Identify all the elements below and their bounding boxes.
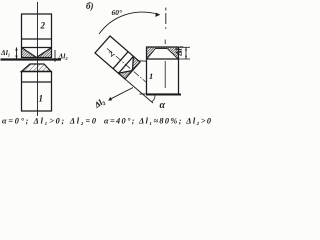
svg-text:60°: 60° (112, 8, 123, 17)
tilted assembly axis dash-dot (107, 48, 147, 82)
svg-text:α: α (160, 100, 166, 111)
tilted block 2 cone V wall a (132, 56, 135, 70)
recess base line (147, 58, 179, 60)
block 1 right body (147, 47, 179, 94)
dl1 dimension line (185, 47, 187, 59)
svg-text:α=0°; Δl₁>0; Δl₂=0: α=0°; Δl₁>0; Δl₂=0 (2, 117, 96, 126)
tilted block 2 outline (95, 36, 140, 79)
svg-text:б): б) (86, 1, 94, 11)
alpha angle bottom edge extension (140, 93, 147, 95)
block 1 right hatched band (147, 47, 179, 59)
svg-text:2: 2 (40, 21, 46, 31)
tilted block 2 cone V wall b (118, 71, 132, 74)
contact line cone neck upper (140, 60, 147, 62)
block 1 body (22, 72, 52, 112)
dl1 dimension extension bottom (179, 58, 191, 60)
tilted block 2 internal line upper (113, 52, 128, 69)
tilted block 2 internal line lower (118, 56, 133, 73)
block 2 cone V right wall (37, 48, 52, 58)
block 1 right bottom heavy edge (146, 94, 181, 96)
inserted cone dome white (147, 49, 178, 59)
block 2 internal line upper (22, 38, 52, 40)
arc arrowhead (155, 13, 160, 17)
alpha angle arc (152, 95, 155, 102)
tilted block 2 hatched section b (118, 71, 132, 80)
tilted block 2 hatched section a (133, 56, 141, 70)
block 2 body (22, 14, 52, 58)
block 1 dome base line (21, 71, 52, 73)
joint plane heavy line (1, 58, 62, 60)
svg-text:α=40°; Δl₁≈80%; Δl₂>0: α=40°; Δl₁≈80%; Δl₂>0 (104, 117, 211, 126)
block 1 cone dome (22, 64, 52, 72)
figure a centerline (37, 2, 39, 116)
dimension arrow dl2 right (54, 50, 56, 62)
60 degree arc (99, 12, 158, 34)
block 2 hatched section right (37, 48, 52, 58)
svg-text:Δl₂: Δl₂ (58, 52, 69, 61)
block 2 internal line lower (22, 47, 52, 49)
dimension arrow dl1 left (16, 48, 18, 59)
svg-text:Δl₁: Δl₁ (0, 48, 10, 57)
block 1 internal line (22, 81, 52, 83)
dl1 dimension extension top (179, 46, 191, 48)
block 2 hatched section left (22, 48, 37, 58)
vertical datum axis dash-dot (165, 8, 167, 11)
svg-text:1: 1 (149, 71, 153, 81)
block 1 right axis dash-dot (164, 40, 166, 45)
svg-text:1: 1 (39, 94, 44, 104)
tilted block edge extension (125, 79, 153, 103)
block 2 cone V left wall (22, 48, 37, 58)
dl2 leader arrow (109, 88, 133, 100)
svg-text:Δl₁: Δl₁ (175, 45, 184, 56)
